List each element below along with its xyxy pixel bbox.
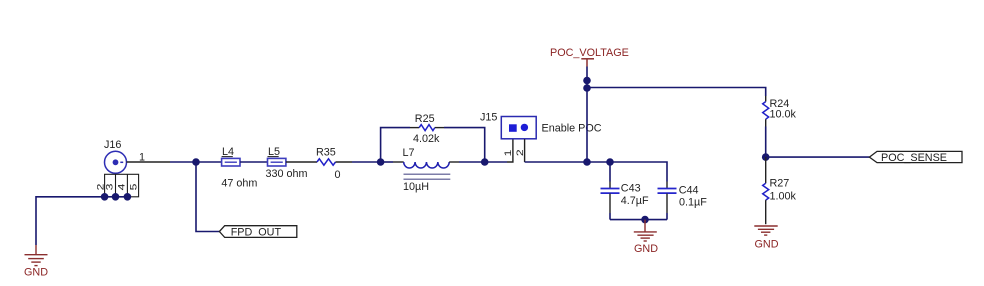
- resistor R35: [317, 159, 336, 165]
- resistor R25: [419, 125, 435, 131]
- wire J16 shield to ground: [36, 197, 127, 245]
- wire J16 to L4: [196, 161, 222, 163]
- svg-text:R25: R25: [415, 113, 435, 125]
- svg-text:4.7µF: 4.7µF: [621, 195, 649, 207]
- wire to POC_SENSE flag: [766, 156, 870, 158]
- resistor R24: [763, 102, 769, 120]
- svg-text:1: 1: [503, 150, 513, 157]
- R35 pin stub right: [336, 161, 353, 163]
- label L4 underline: [222, 156, 233, 158]
- junction POC_SENSE: [762, 153, 770, 161]
- svg-text:Enable POC: Enable POC: [542, 123, 602, 135]
- svg-text:J15: J15: [480, 111, 497, 123]
- junction node L7/R25 left: [377, 158, 385, 166]
- svg-text:4.02k: 4.02k: [413, 133, 440, 145]
- R24 pin stub top: [765, 96, 767, 102]
- R25 pin stub left: [410, 127, 419, 129]
- svg-text:C44: C44: [679, 185, 699, 197]
- wire node to J15 pin1: [485, 161, 507, 163]
- wire C44 to gnd rail: [666, 213, 668, 220]
- junction node L7/R25 right: [481, 158, 489, 166]
- junction dots J16 pins 2-4: [101, 193, 131, 201]
- power symbol POC_VOLTAGE: [581, 59, 594, 67]
- C43 pin stub bottom: [609, 194, 611, 214]
- svg-text:GND: GND: [634, 243, 658, 255]
- power POC_VOLTAGE vertical wire: [586, 67, 588, 163]
- wire main to C44 corner: [610, 162, 667, 182]
- C44 pin stub top: [666, 182, 668, 189]
- wire POC rail to R24: [587, 88, 766, 97]
- svg-text:0: 0: [335, 169, 341, 181]
- wire R25 branch left: [381, 128, 410, 162]
- net label POC_SENSE flag: [869, 151, 962, 162]
- capacitor C43: [601, 189, 620, 194]
- junction GND rail: [641, 216, 649, 224]
- inductor L7 coil: [404, 162, 450, 168]
- svg-text:2: 2: [515, 149, 525, 156]
- wire C43 to gnd rail: [609, 213, 611, 220]
- svg-text:R35: R35: [316, 146, 336, 158]
- C43 pin stub top: [609, 182, 611, 189]
- ground GND right: [754, 226, 777, 235]
- J15 pin 2 pad: [521, 124, 528, 131]
- ferrite bead L5: [268, 158, 286, 166]
- wire J15 pin2 to POC node: [525, 161, 610, 163]
- svg-text:4: 4: [116, 184, 126, 191]
- L7 core lines: [404, 174, 451, 179]
- svg-text:1.00k: 1.00k: [770, 191, 797, 203]
- label L5 underline: [268, 156, 279, 158]
- R24 pin stub bottom: [765, 119, 767, 126]
- wire node to C43 top: [609, 162, 611, 182]
- resistor R27: [763, 183, 769, 200]
- connector J16 body: [105, 151, 127, 173]
- capacitor C44: [658, 189, 677, 194]
- wire L4 to L5: [240, 161, 268, 163]
- wire L7 to node: [459, 161, 485, 163]
- junction C43 tap: [606, 158, 614, 166]
- R27 pin stub top: [765, 157, 767, 183]
- J15 pin 1 pad: [509, 124, 517, 132]
- L7 pin stub left: [393, 161, 404, 163]
- junction node FPD_OUT tap: [192, 158, 200, 166]
- R27 pin stub bottom: [765, 200, 767, 224]
- wire to FPD_OUT flag: [196, 162, 219, 232]
- ground GND left: [25, 245, 48, 266]
- svg-text:5: 5: [128, 184, 138, 191]
- svg-text:POC_VOLTAGE: POC_VOLTAGE: [550, 47, 629, 59]
- junction POC_VOLTAGE tap: [583, 158, 591, 166]
- wire R35 to node: [352, 161, 381, 163]
- ground GND middle: [634, 220, 657, 241]
- C44 pin stub bottom: [666, 194, 668, 214]
- wire J16 pin1 to junction: [170, 161, 196, 163]
- ferrite bead L4: [222, 158, 240, 166]
- L7 pin stub right: [449, 161, 459, 163]
- wire capacitor ground rail: [610, 219, 667, 221]
- wire node to L7: [381, 161, 393, 163]
- wire R24 to POC_SENSE node: [765, 127, 767, 158]
- wire L5 to R35 pin stub: [286, 161, 317, 163]
- wire R25 branch right: [444, 128, 485, 162]
- svg-text:10µH: 10µH: [403, 181, 429, 193]
- svg-text:3: 3: [105, 184, 115, 191]
- J16 pin 1 wire: [127, 161, 171, 163]
- svg-text:GND: GND: [755, 238, 779, 250]
- J15 pin 2 stub: [524, 139, 526, 162]
- svg-text:L7: L7: [403, 147, 415, 159]
- R25 pin stub right: [435, 127, 444, 129]
- header J15 box: [501, 117, 536, 139]
- J15 pin 1 stub: [507, 139, 513, 162]
- junction dots POC rail: [583, 77, 591, 85]
- net label FPD_OUT flag: [219, 226, 296, 238]
- svg-text:FPD_OUT: FPD_OUT: [231, 227, 282, 239]
- svg-text:C43: C43: [621, 182, 641, 194]
- svg-text:330 ohm: 330 ohm: [266, 168, 308, 180]
- svg-text:47 ohm: 47 ohm: [221, 177, 257, 189]
- svg-text:10.0k: 10.0k: [770, 109, 797, 121]
- svg-text:R27: R27: [770, 178, 790, 190]
- svg-text:GND: GND: [24, 267, 48, 279]
- svg-text:0.1µF: 0.1µF: [679, 197, 707, 209]
- svg-text:J16: J16: [104, 139, 121, 151]
- svg-text:POC_SENSE: POC_SENSE: [881, 152, 947, 164]
- J16 shield pin box: [105, 174, 139, 197]
